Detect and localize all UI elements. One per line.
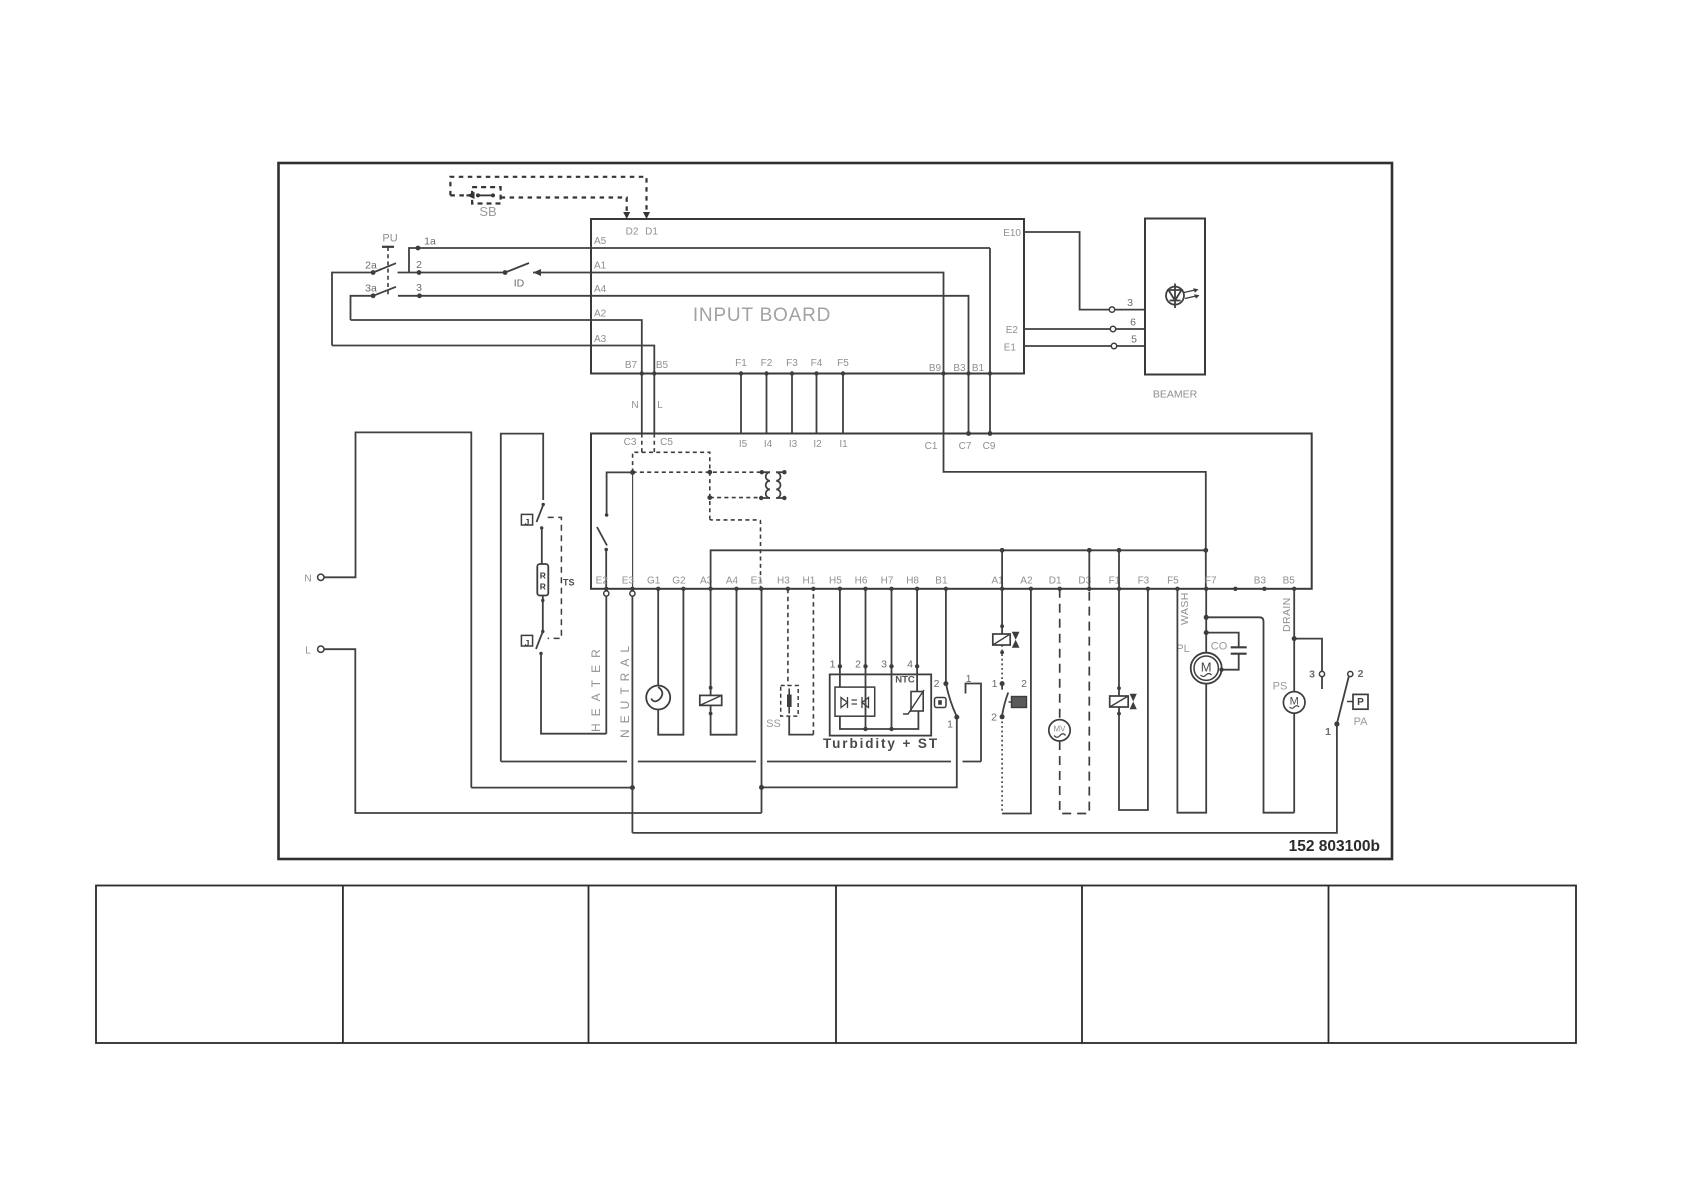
svg-text:1: 1	[947, 719, 953, 731]
wire valve to F3	[1119, 589, 1148, 810]
svg-text:M: M	[1201, 659, 1212, 674]
svg-text:1a: 1a	[424, 236, 436, 248]
wire F2 to I4	[766, 374, 768, 434]
svg-text:WASH: WASH	[1179, 592, 1191, 625]
contact J upper blade	[537, 505, 544, 522]
svg-text:N: N	[304, 574, 311, 585]
svg-text:L: L	[657, 400, 663, 411]
connector circle E2	[604, 591, 609, 596]
svg-text:F5: F5	[837, 358, 849, 369]
svg-text:I2: I2	[813, 439, 822, 450]
wire PS to B5	[1293, 589, 1295, 692]
wire lamp to G2	[658, 589, 683, 735]
svg-text:F3: F3	[1138, 576, 1150, 587]
flow switch blade	[1002, 684, 1008, 715]
svg-text:CO: CO	[1211, 641, 1228, 653]
capacitor CO plates	[1231, 646, 1247, 648]
capacitor CO bottom lead	[1222, 654, 1239, 670]
board internal E3 lead	[632, 472, 634, 588]
turbidity sensor box	[830, 674, 932, 735]
svg-text:B7: B7	[625, 360, 638, 371]
svg-text:D2: D2	[626, 227, 639, 238]
svg-text:J: J	[525, 638, 530, 648]
node F7 branch	[1204, 615, 1209, 620]
wire H5 to turbidity pin 1	[839, 589, 841, 687]
wire MV to D3 dashed	[1060, 589, 1090, 814]
svg-text:SB: SB	[479, 204, 496, 219]
wire SB to D2 dashed	[501, 198, 627, 215]
push-button PU linkage dashed	[387, 247, 389, 297]
blade ST	[946, 684, 957, 717]
node B5 branch	[1292, 636, 1297, 641]
wire heater return rail (with hops)	[501, 761, 981, 763]
svg-text:A5: A5	[594, 236, 607, 247]
svg-text:B1: B1	[935, 576, 948, 587]
node bus A1	[1000, 548, 1005, 553]
svg-text:1: 1	[830, 659, 836, 671]
svg-text:E2: E2	[596, 576, 609, 587]
svg-text:MV: MV	[1054, 725, 1067, 734]
wire F7 wash line	[1205, 589, 1207, 653]
svg-text:4: 4	[907, 659, 913, 671]
svg-text:1: 1	[1325, 726, 1331, 738]
contact 1 PA	[1334, 721, 1339, 726]
wire N riser	[324, 432, 471, 787]
wire heater string to E2 bottom	[541, 654, 606, 734]
wire ST contact 1 to E1 rail	[762, 717, 957, 787]
contact 2a pivot	[371, 270, 376, 275]
wire SS to H1	[789, 716, 813, 735]
fill valve EV bowtie	[1012, 632, 1020, 640]
switch ID pivot	[503, 270, 508, 275]
node bus D3	[1087, 548, 1092, 553]
svg-text:B3: B3	[953, 363, 966, 374]
wire A5 drop to B1 C9	[989, 248, 991, 434]
svg-text:2a: 2a	[365, 260, 377, 272]
connector circle E3	[630, 591, 635, 596]
svg-text:B3: B3	[1254, 576, 1267, 587]
thermistor NTC slash	[903, 690, 924, 714]
wire PA to neutral rail	[632, 724, 1337, 833]
wire drain leg to PS	[1293, 713, 1295, 813]
wire 3 to pin A4 and down to B3 C7	[398, 296, 969, 434]
svg-text:SS: SS	[766, 718, 781, 730]
wire H3 dashed to SS	[787, 589, 789, 686]
wire H6 to turbidity pin 2	[865, 589, 867, 729]
wire H1 dashed	[812, 589, 814, 735]
wire 1a to pin A5	[409, 248, 990, 273]
dashed internal line to transformer primary bottom	[710, 497, 761, 499]
svg-text:G2: G2	[672, 576, 686, 587]
node E1 L junction	[759, 785, 764, 790]
svg-text:1: 1	[992, 678, 998, 690]
svg-text:3: 3	[1127, 297, 1133, 309]
board internal E2 switch vertical	[607, 472, 633, 516]
svg-text:HEATER: HEATER	[589, 642, 603, 732]
node F7 capacitor branch	[1204, 630, 1209, 635]
terminal L	[318, 646, 324, 652]
svg-text:D1: D1	[1049, 576, 1062, 587]
flow switch contact 1	[1000, 681, 1005, 686]
dashed C5 internal lead	[653, 434, 655, 453]
microswitch MS box	[1012, 697, 1027, 708]
svg-text:NTC: NTC	[895, 675, 915, 686]
pressure switch PA box	[1347, 701, 1353, 703]
node internal E3	[630, 470, 635, 475]
node dashed bus lower	[707, 495, 712, 500]
switch SB contact bar	[478, 194, 493, 196]
wire E2 heater	[605, 589, 607, 734]
resistor R R heater element	[537, 564, 548, 596]
svg-text:A1: A1	[594, 261, 607, 272]
connector circle on beamer wire 6	[1110, 326, 1115, 331]
wire 2 left segment	[332, 273, 373, 346]
wire 2 to pin A1 and down to B9 C1	[533, 273, 1206, 589]
LED lamp symbol in beamer	[1166, 284, 1184, 309]
svg-text:E3: E3	[622, 576, 635, 587]
wire flow contact down dotted	[1001, 717, 1003, 814]
connector circle on beamer wire 5	[1111, 343, 1116, 348]
dashed internal bus C3 C5	[633, 452, 710, 518]
svg-text:B9: B9	[929, 363, 942, 374]
wire F3 to I3	[791, 374, 793, 434]
wire E2 to beamer pin 6	[1024, 328, 1145, 330]
optical emitter symbol	[841, 697, 848, 708]
BEAMER box	[1145, 219, 1205, 375]
arrowhead into pin D2	[623, 212, 630, 219]
svg-text:2: 2	[991, 712, 997, 724]
svg-text:H3: H3	[777, 576, 790, 587]
dashed C3 internal lead	[641, 434, 643, 453]
svg-text:B1: B1	[972, 363, 985, 374]
svg-text:C7: C7	[959, 441, 972, 452]
wire H7 to turbidity pin 3	[891, 589, 893, 729]
svg-text:F3: F3	[786, 358, 798, 369]
motor PS drain pump	[1283, 692, 1305, 714]
contact J lower box	[521, 635, 532, 646]
thermistor NTC body	[911, 692, 923, 712]
wire to A2	[1002, 589, 1031, 814]
wire D1 dashed to MV	[1059, 589, 1061, 720]
svg-text:E10: E10	[1003, 228, 1021, 239]
transformer TR secondary winding	[776, 472, 784, 498]
svg-text:152 803100b: 152 803100b	[1289, 838, 1380, 855]
svg-text:2: 2	[855, 659, 861, 671]
wire heater rail to ST contact	[966, 684, 982, 762]
main board pin nodes	[604, 587, 1296, 591]
svg-text:2: 2	[416, 259, 422, 271]
svg-text:2: 2	[1021, 678, 1027, 690]
bus drop to pin F1	[1118, 550, 1120, 589]
wire heater string lower	[542, 596, 544, 632]
turbidity internal bus	[840, 711, 919, 729]
svg-text:C5: C5	[660, 437, 673, 448]
push-button PU cap bar	[382, 246, 394, 248]
node N rail at E3	[630, 785, 635, 790]
fuse SS element	[788, 689, 790, 714]
svg-text:J: J	[525, 517, 530, 527]
svg-text:Turbidity + ST: Turbidity + ST	[823, 736, 939, 751]
svg-text:P: P	[1357, 697, 1364, 708]
contact 2 ST	[943, 681, 948, 686]
svg-text:C1: C1	[925, 441, 938, 452]
svg-text:B5: B5	[1283, 576, 1296, 587]
svg-text:INPUT BOARD: INPUT BOARD	[693, 305, 831, 326]
svg-text:L: L	[305, 646, 311, 657]
svg-text:I4: I4	[764, 439, 773, 450]
svg-text:A3: A3	[594, 334, 607, 345]
wire L rail to E1 riser	[324, 649, 762, 813]
flow switch contact 2	[1000, 714, 1005, 719]
svg-text:NEUTRAL: NEUTRAL	[618, 640, 632, 738]
wire F1 to regen valve	[1118, 589, 1120, 696]
wire E1 to beamer pin 5	[1024, 345, 1145, 347]
wire G1 to lamp	[657, 589, 659, 686]
upper board pin nodes	[640, 371, 993, 375]
svg-text:3: 3	[881, 659, 887, 671]
svg-text:H6: H6	[855, 576, 868, 587]
svg-text:PU: PU	[382, 233, 397, 245]
main board pin labels row	[596, 576, 1296, 587]
wire H8 to turbidity pin 4 NTC	[916, 589, 918, 692]
svg-text:E2: E2	[1006, 325, 1019, 336]
connector circle on beamer wire 3	[1109, 307, 1114, 312]
svg-text:1: 1	[966, 673, 972, 685]
wire PL to F5	[1177, 589, 1206, 813]
wire E3 neutral to bottom rail	[631, 589, 633, 833]
motor PL wash pump	[1191, 653, 1222, 684]
svg-text:2: 2	[1358, 668, 1364, 680]
schematic frame	[279, 163, 1393, 859]
optical sensor inner box	[835, 687, 875, 716]
bus drop to pin D3	[1088, 550, 1090, 589]
svg-text:I3: I3	[789, 439, 798, 450]
svg-text:H1: H1	[803, 576, 816, 587]
svg-text:H7: H7	[881, 576, 894, 587]
actuator B box	[935, 698, 947, 708]
wire N rail to E3	[471, 787, 632, 789]
svg-text:3: 3	[1309, 669, 1315, 681]
board internal switched-line bus	[711, 550, 1206, 589]
wire A3 to regeneration coil	[710, 589, 712, 696]
wire 2 middle segment	[398, 272, 506, 274]
svg-text:G1: G1	[647, 576, 661, 587]
SB push-button dashed outer loop	[450, 177, 646, 216]
MAIN BOARD outline	[591, 434, 1312, 589]
blade PA	[1337, 677, 1349, 723]
motor MV	[1049, 720, 1070, 741]
thermostat TS dashed box	[548, 517, 562, 638]
wire E1 line riser	[761, 589, 763, 813]
svg-text:H8: H8	[906, 576, 919, 587]
svg-text:F4: F4	[811, 358, 823, 369]
optical receiver symbol	[862, 692, 869, 712]
contact 1 ST pivot	[954, 715, 959, 720]
node bus C1-F7	[1203, 548, 1208, 553]
wire valve to flow contact dotted	[1001, 645, 1003, 684]
svg-text:N: N	[631, 400, 638, 411]
node C7	[966, 431, 971, 436]
LED light ray arrows	[1184, 290, 1196, 299]
svg-text:PS: PS	[1273, 681, 1288, 693]
arrowhead into pin D1	[643, 212, 650, 219]
node bus F1	[1117, 548, 1122, 553]
wire A3 row to B5 drop	[332, 346, 654, 434]
svg-text:H5: H5	[829, 576, 842, 587]
lamp LP	[646, 686, 670, 710]
coil A3-A4 body	[700, 695, 722, 705]
switch ID arrowhead contact	[533, 269, 541, 276]
terminal N	[318, 574, 324, 580]
svg-text:D1: D1	[645, 227, 658, 238]
wire A2 row to B7 drop	[351, 320, 642, 434]
valve F1 coil body	[1110, 696, 1129, 707]
contact 2 PA	[1348, 671, 1353, 676]
node on wire 1a	[416, 246, 421, 251]
contact J upper box	[521, 514, 532, 525]
svg-text:C9: C9	[983, 441, 996, 452]
node on wire 3	[417, 293, 422, 298]
contact J lower blade	[536, 632, 543, 650]
svg-text:A2: A2	[594, 309, 607, 320]
transformer TR primary winding	[761, 472, 770, 498]
wire F7 branch to drain leg	[1206, 617, 1294, 812]
svg-text:E1: E1	[751, 576, 764, 587]
bus drop to pin A1	[1001, 550, 1003, 589]
wire heater string upper	[541, 528, 543, 564]
svg-text:BEAMER: BEAMER	[1153, 389, 1198, 401]
wire B1 to ST changeover	[945, 589, 947, 684]
dashed internal line to transformer primary top	[633, 471, 762, 473]
svg-text:F7: F7	[1205, 576, 1217, 587]
switch SB dashed box	[472, 187, 501, 203]
wire 3 left segment	[351, 296, 374, 320]
contact 3a pivot	[371, 293, 376, 298]
svg-text:PA: PA	[1354, 716, 1369, 728]
board internal E2 switch blade	[597, 527, 607, 546]
svg-text:A4: A4	[594, 284, 607, 295]
wire F1 to I5	[740, 374, 742, 434]
wire E10 to beamer pin 3	[1024, 232, 1145, 310]
svg-text:E1: E1	[1004, 343, 1017, 354]
fuse SS dashed box	[781, 686, 799, 717]
wire F4 to I2	[816, 374, 818, 434]
switch ID blade	[505, 263, 529, 273]
svg-text:B5: B5	[656, 360, 669, 371]
svg-text:DRAIN: DRAIN	[1281, 597, 1293, 632]
INPUT BOARD outline	[591, 219, 1024, 374]
svg-text:I1: I1	[839, 439, 848, 450]
board internal E2 switch lower lead	[605, 550, 607, 589]
wire B5 branch to contact 3	[1294, 639, 1322, 672]
svg-text:R: R	[540, 582, 546, 592]
optical rays	[852, 699, 858, 701]
wire F5 to I1	[842, 374, 844, 434]
svg-text:A4: A4	[726, 576, 739, 587]
contact 3 PA	[1319, 671, 1324, 676]
svg-text:3a: 3a	[365, 283, 377, 295]
contact 2a blade	[373, 263, 396, 272]
node C9	[988, 431, 993, 436]
svg-text:F1: F1	[735, 358, 747, 369]
svg-text:TS: TS	[563, 578, 575, 588]
svg-text:5: 5	[1131, 334, 1137, 346]
node dashed bus	[707, 470, 712, 475]
contact 3a blade	[373, 287, 396, 296]
svg-text:F2: F2	[761, 358, 773, 369]
svg-text:F5: F5	[1167, 576, 1179, 587]
fill valve EV coil body	[993, 634, 1010, 645]
valve F1 bowtie	[1130, 694, 1137, 702]
dashed internal line to E1 pin	[710, 518, 761, 589]
svg-text:R: R	[540, 571, 546, 581]
bottom reference table (empty 6 columns)	[96, 886, 1576, 1044]
svg-text:ID: ID	[514, 278, 525, 290]
wire A1 to fill valve	[1001, 589, 1003, 634]
capacitor CO top lead	[1206, 633, 1239, 647]
svg-text:3: 3	[416, 282, 422, 294]
svg-text:I5: I5	[739, 439, 748, 450]
svg-text:2: 2	[934, 678, 940, 690]
svg-text:A2: A2	[1020, 576, 1033, 587]
wire coil to A4	[711, 589, 737, 735]
node on wire 2	[417, 270, 422, 275]
svg-text:C3: C3	[624, 437, 637, 448]
svg-text:6: 6	[1130, 317, 1136, 329]
wire heater return riser	[501, 434, 543, 762]
